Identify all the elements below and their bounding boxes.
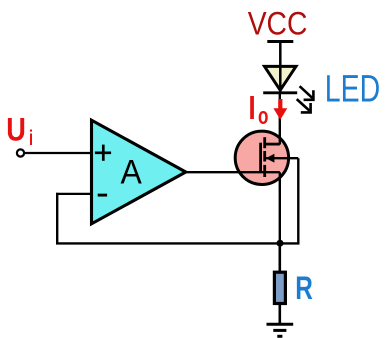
wire VCC to LED bbox=[279, 42, 282, 93]
label Ui bbox=[6, 112, 33, 150]
svg-text:LED: LED bbox=[325, 67, 380, 109]
wire noninverting input bbox=[24, 152, 92, 154]
wire drain bbox=[279, 92, 281, 145]
wire feedback vertical bbox=[56, 193, 58, 244]
ground bbox=[267, 324, 294, 336]
wire resistor to ground bbox=[278, 305, 281, 324]
junction node source bbox=[277, 240, 284, 247]
svg-text:VCC: VCC bbox=[248, 4, 308, 41]
resistor R bbox=[274, 272, 285, 303]
svg-text:R: R bbox=[295, 270, 313, 306]
input terminal Ui bbox=[17, 149, 24, 156]
op-amp - input marker bbox=[98, 194, 107, 197]
op-amp U1 bbox=[92, 120, 186, 224]
LED D1 bbox=[263, 66, 297, 92]
LED light arrow 2 bbox=[297, 99, 311, 112]
svg-text:i: i bbox=[29, 127, 33, 150]
op-amp + input marker bbox=[95, 145, 111, 161]
svg-text:A: A bbox=[121, 153, 143, 191]
label Io bbox=[250, 96, 268, 130]
svg-text:U: U bbox=[6, 112, 26, 148]
wire feedback horizontal bbox=[56, 242, 300, 244]
wire inverting input bbox=[56, 193, 92, 195]
transistor Q1 bbox=[235, 131, 298, 184]
wire source bbox=[279, 172, 281, 243]
LED light arrow 1 bbox=[300, 86, 314, 100]
wire op-amp output to gate bbox=[186, 171, 280, 173]
wire body down bbox=[297, 158, 299, 243]
VCC rail bbox=[267, 40, 293, 43]
current arrow Io bbox=[273, 99, 287, 120]
svg-text:o: o bbox=[258, 103, 268, 130]
wire node to resistor bbox=[278, 243, 281, 272]
